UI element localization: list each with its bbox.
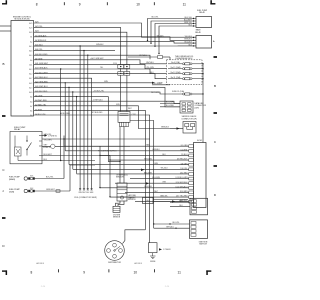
svg-text:A7 RED-YEL: A7 RED-YEL <box>35 104 46 107</box>
svg-text:A5: A5 <box>30 110 32 113</box>
svg-text:TO IGNITION SWITCH: TO IGNITION SWITCH <box>98 151 117 153</box>
svg-text:HAYNES: HAYNES <box>134 262 143 265</box>
svg-text:BLK-YEL: BLK-YEL <box>173 222 180 224</box>
svg-text:GRN: GRN <box>90 192 93 194</box>
svg-text:C PGM-FI: C PGM-FI <box>163 249 171 251</box>
svg-text:10: 10 <box>136 3 140 7</box>
svg-text:A12: A12 <box>29 73 32 76</box>
svg-text:SENSOR: SENSOR <box>128 199 136 201</box>
svg-text:B: B <box>2 62 4 66</box>
svg-text:11: 11 <box>178 270 182 274</box>
svg-text:ECM: ECM <box>197 140 202 142</box>
svg-text:2-24: 2-24 <box>41 286 46 288</box>
svg-text:A19: A19 <box>29 86 32 89</box>
svg-text:NOISE: NOISE <box>150 261 156 263</box>
svg-text:WHT-GRN: WHT-GRN <box>151 92 160 94</box>
svg-text:MODULE (ECM): MODULE (ECM) <box>15 19 30 21</box>
svg-text:WHT-RED: WHT-RED <box>144 158 153 160</box>
svg-text:C FUSE 31: C FUSE 31 <box>48 136 57 138</box>
svg-text:A8: A8 <box>30 114 32 117</box>
svg-text:A7: A7 <box>30 105 32 108</box>
svg-text:SWITCH: SWITCH <box>199 244 207 246</box>
svg-text:(MAIN): (MAIN) <box>9 178 15 181</box>
svg-text:A10: A10 <box>29 54 32 57</box>
svg-text:YEL-GRN: YEL-GRN <box>44 139 53 141</box>
svg-text:WHT: WHT <box>179 201 183 203</box>
svg-text:8: 8 <box>31 270 33 274</box>
svg-text:BLK-YEL: BLK-YEL <box>46 177 53 179</box>
svg-text:A16: A16 <box>29 50 32 53</box>
svg-text:RELAY: RELAY <box>14 128 21 131</box>
svg-text:BRN-YEL: BRN-YEL <box>160 195 167 197</box>
svg-text:RELAY: RELAY <box>199 11 206 14</box>
svg-text:WHT-BLU: WHT-BLU <box>146 62 154 64</box>
svg-text:BLU-WHT: BLU-WHT <box>166 102 175 104</box>
svg-text:YEL-BLK: YEL-BLK <box>157 35 165 37</box>
svg-text:DISTRIBUTOR: DISTRIBUTOR <box>108 262 121 264</box>
svg-text:A6: A6 <box>30 96 32 99</box>
svg-text:SENSOR: SENSOR <box>113 217 121 219</box>
svg-text:A22: A22 <box>29 82 32 85</box>
svg-text:A9: A9 <box>30 59 32 62</box>
svg-text:WHT-BLU: WHT-BLU <box>166 226 174 228</box>
svg-text:A3 WHT-RED: A3 WHT-RED <box>35 99 47 102</box>
svg-text:A17: A17 <box>29 77 32 80</box>
svg-text:YEL-GRN: YEL-GRN <box>146 67 154 69</box>
svg-text:C ECM: C ECM <box>157 83 163 85</box>
svg-text:9: 9 <box>83 270 85 274</box>
svg-text:BLU: BLU <box>86 192 89 194</box>
svg-text:FUSE 31 (10A): FUSE 31 (10A) <box>172 90 185 93</box>
svg-text:A27 BLK-RED: A27 BLK-RED <box>92 111 104 114</box>
svg-text:A13: A13 <box>29 68 32 71</box>
svg-text:A25: A25 <box>29 22 32 25</box>
svg-text:GRN-BLK: GRN-BLK <box>152 149 160 151</box>
svg-text:GRN-BLK: GRN-BLK <box>96 44 104 46</box>
svg-text:+ ACC GRN-WHT: + ACC GRN-WHT <box>90 57 104 60</box>
svg-text:A3: A3 <box>30 100 32 103</box>
svg-text:9: 9 <box>79 3 81 7</box>
svg-text:8: 8 <box>36 3 38 7</box>
svg-text:WHT-BLU: WHT-BLU <box>139 55 147 57</box>
svg-text:A15: A15 <box>29 45 32 48</box>
svg-text:(SUB): (SUB) <box>9 191 15 193</box>
svg-text:WHT: WHT <box>128 108 132 110</box>
svg-text:A6 ORN: A6 ORN <box>35 94 43 97</box>
svg-text:A8 BLK-YEL: A8 BLK-YEL <box>35 113 46 116</box>
svg-text:A20 BLK-RED: A20 BLK-RED <box>35 90 48 93</box>
svg-text:A20: A20 <box>29 91 32 94</box>
svg-text:WHT: WHT <box>82 192 85 194</box>
svg-text:(16P): (16P) <box>195 107 200 109</box>
svg-text:CONNECTOR (2P): CONNECTOR (2P) <box>181 118 197 120</box>
svg-text:YEL-BLU: YEL-BLU <box>160 168 168 170</box>
svg-text:C112: C112 <box>132 114 136 116</box>
svg-text:+IG1 BLK-YEL: +IG1 BLK-YEL <box>93 90 104 92</box>
svg-text:2-24: 2-24 <box>165 286 170 288</box>
svg-text:11: 11 <box>183 3 187 7</box>
svg-text:BLK-YEL: BLK-YEL <box>152 17 159 19</box>
svg-text:A2: A2 <box>30 40 32 43</box>
svg-text:FUSE 31: FUSE 31 <box>43 147 50 149</box>
svg-text:B: B <box>214 84 216 88</box>
svg-text:HAYNES: HAYNES <box>36 262 45 265</box>
svg-text:C110: C110 <box>113 63 117 65</box>
svg-text:RED-WHT: RED-WHT <box>144 172 152 174</box>
svg-text:YEL: YEL <box>100 67 103 69</box>
svg-text:GRN-WHT: GRN-WHT <box>46 189 56 191</box>
svg-text:B1: B1 <box>30 37 32 39</box>
svg-text:A5 BRN: A5 BRN <box>35 108 42 111</box>
svg-text:A23: A23 <box>29 26 32 29</box>
svg-text:BLU-GRN: BLU-GRN <box>152 177 160 179</box>
svg-text:A19 WHT-BLU: A19 WHT-BLU <box>35 85 48 88</box>
svg-text:A11: A11 <box>29 63 32 66</box>
svg-text:10: 10 <box>134 270 138 274</box>
svg-text:ORN: ORN <box>78 192 81 194</box>
svg-text:GRN-RED: GRN-RED <box>144 186 153 188</box>
svg-text:A24: A24 <box>29 31 32 34</box>
svg-text:WHT: WHT <box>154 191 158 193</box>
svg-text:RELAY: RELAY <box>195 31 202 34</box>
svg-text:C101 (CONNECTOR VIEW): C101 (CONNECTOR VIEW) <box>74 197 97 199</box>
